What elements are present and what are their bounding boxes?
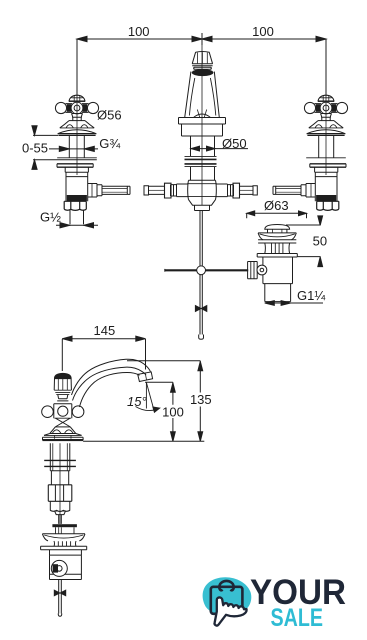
svg-text:G½: G½	[40, 209, 61, 224]
svg-text:G1¼: G1¼	[297, 288, 325, 303]
svg-text:15°: 15°	[127, 394, 147, 409]
svg-text:50: 50	[313, 233, 327, 248]
svg-text:145: 145	[94, 323, 116, 338]
svg-text:0-55: 0-55	[22, 140, 48, 155]
svg-text:100: 100	[252, 24, 274, 39]
svg-text:Ø56: Ø56	[97, 108, 122, 123]
svg-text:100: 100	[162, 405, 184, 420]
svg-text:G¾: G¾	[99, 136, 120, 151]
svg-text:SALE: SALE	[271, 604, 324, 632]
svg-text:Ø63: Ø63	[264, 198, 289, 213]
svg-text:135: 135	[190, 392, 212, 407]
svg-text:100: 100	[128, 24, 150, 39]
